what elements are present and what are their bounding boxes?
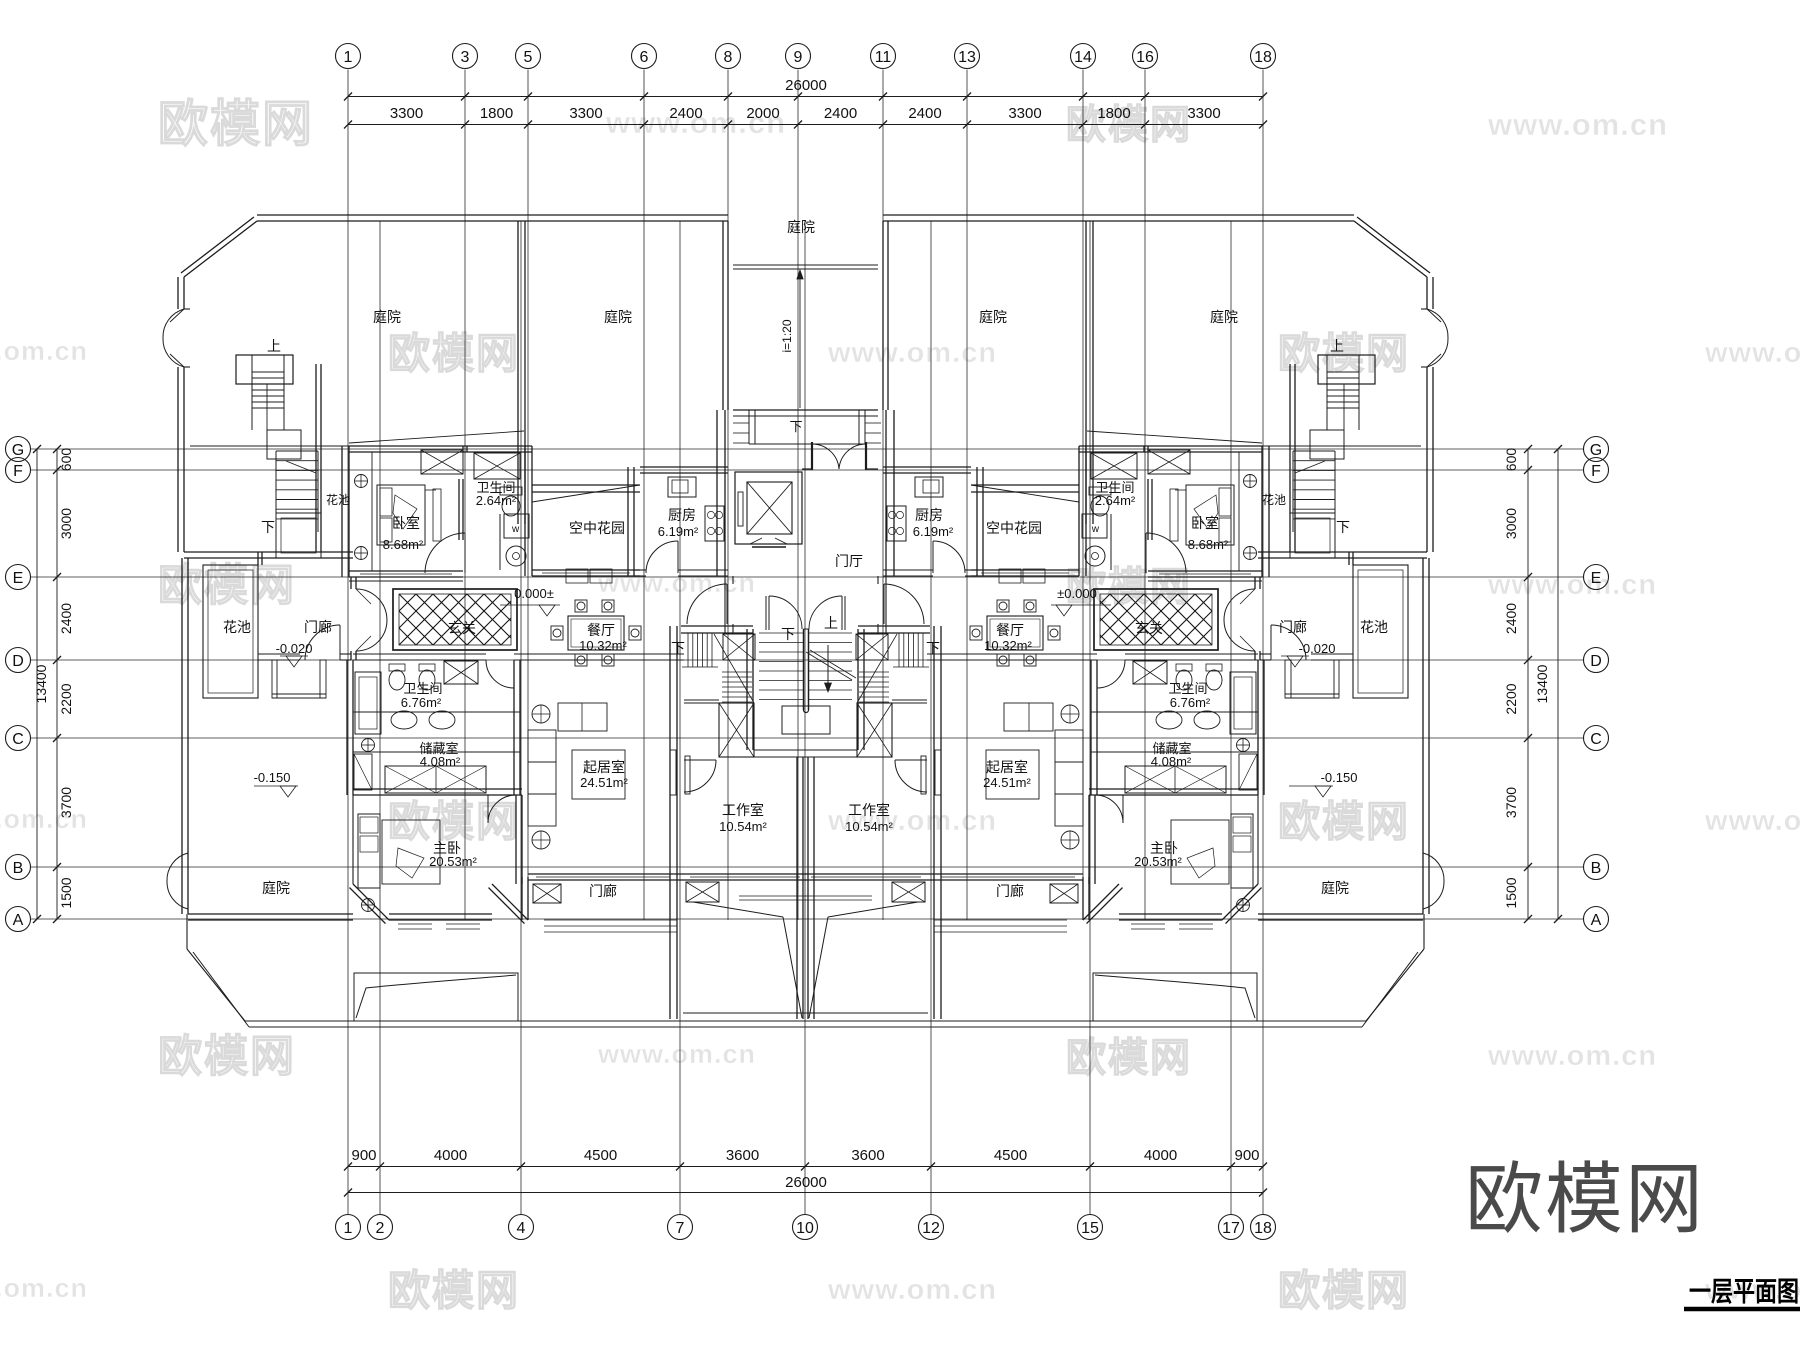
master bedroom 主卧 20.53 bbox=[353, 788, 522, 790]
svg-text:下: 下 bbox=[789, 419, 802, 434]
svg-text:8: 8 bbox=[724, 49, 733, 66]
bathroom 卫生间 6.76 bbox=[352, 660, 354, 795]
svg-text:庭院: 庭院 bbox=[787, 219, 815, 235]
svg-text:www.om.cn: www.om.cn bbox=[1487, 1040, 1657, 1072]
porch 门廊 and planter 花池 bbox=[203, 565, 258, 698]
svg-text:F: F bbox=[1591, 463, 1601, 480]
svg-text:2.64m²: 2.64m² bbox=[1095, 493, 1136, 508]
porch 门廊 and planter 花池 bbox=[1353, 565, 1408, 698]
svg-text:15: 15 bbox=[1081, 1220, 1099, 1237]
svg-text:±0.000: ±0.000 bbox=[1057, 586, 1097, 601]
svg-text:www.om.cn: www.om.cn bbox=[1704, 337, 1800, 369]
basement stair bbox=[858, 625, 930, 627]
central stair flight bbox=[857, 629, 859, 750]
svg-text:10.32m²: 10.32m² bbox=[984, 638, 1032, 653]
svg-text:起居室: 起居室 bbox=[583, 759, 625, 775]
grid lines bbox=[31, 70, 1584, 1215]
storage 储藏室 4.08 bbox=[353, 751, 520, 753]
svg-text:庭院: 庭院 bbox=[1210, 309, 1238, 325]
svg-text:20.53m²: 20.53m² bbox=[429, 854, 477, 869]
svg-text:13: 13 bbox=[958, 49, 976, 66]
svg-text:4500: 4500 bbox=[994, 1147, 1027, 1164]
svg-text:上: 上 bbox=[1330, 338, 1344, 354]
svg-text:欧模网: 欧模网 bbox=[1278, 798, 1410, 845]
outer wall top bbox=[883, 220, 1354, 222]
svg-text:13400: 13400 bbox=[33, 664, 49, 703]
svg-text:26000: 26000 bbox=[785, 77, 827, 94]
svg-text:欧模网: 欧模网 bbox=[1278, 330, 1410, 377]
sky garden 空中花园 bbox=[532, 484, 640, 486]
svg-text:www.om.cn: www.om.cn bbox=[1487, 569, 1657, 601]
sky garden 空中花园 bbox=[971, 484, 1079, 486]
svg-text:庭院: 庭院 bbox=[604, 309, 632, 325]
svg-text:门廊: 门廊 bbox=[589, 883, 617, 899]
svg-text:3000: 3000 bbox=[58, 508, 74, 539]
elevator bbox=[735, 472, 802, 544]
svg-text:花池: 花池 bbox=[326, 492, 350, 507]
svg-text:2400: 2400 bbox=[824, 105, 857, 122]
svg-text:D: D bbox=[12, 653, 24, 670]
planting bed bbox=[354, 973, 518, 1021]
svg-text:F: F bbox=[13, 463, 23, 480]
svg-text:1800: 1800 bbox=[480, 105, 513, 122]
svg-text:2000: 2000 bbox=[746, 105, 779, 122]
svg-text:2: 2 bbox=[376, 1220, 385, 1237]
svg-text:欧模网: 欧模网 bbox=[1066, 1036, 1192, 1080]
svg-text:下: 下 bbox=[1336, 519, 1350, 535]
svg-text:900: 900 bbox=[351, 1147, 376, 1164]
outer wall top bbox=[257, 220, 728, 222]
svg-text:www.om.cn: www.om.cn bbox=[597, 1039, 756, 1069]
kitchen 厨房 6.19 bbox=[883, 466, 971, 468]
svg-text:24.51m²: 24.51m² bbox=[983, 775, 1031, 790]
svg-text:1500: 1500 bbox=[1503, 877, 1519, 908]
svg-text:17: 17 bbox=[1222, 1220, 1240, 1237]
svg-text:玄关: 玄关 bbox=[448, 620, 476, 636]
bathroom 卫生间 2.64 bbox=[474, 453, 520, 479]
basement stair bbox=[681, 625, 753, 627]
svg-text:工作室: 工作室 bbox=[722, 802, 764, 818]
dimension system bbox=[6, 44, 1609, 1240]
site boundary bbox=[186, 914, 188, 949]
svg-text:5: 5 bbox=[524, 49, 533, 66]
svg-text:欧模网: 欧模网 bbox=[1465, 1155, 1705, 1243]
svg-text:庭院: 庭院 bbox=[373, 309, 401, 325]
entry mat 玄关 bbox=[1094, 589, 1218, 650]
washer closet bbox=[1082, 514, 1107, 538]
living room 起居室 24.51 bbox=[1004, 703, 1053, 731]
svg-text:庭院: 庭院 bbox=[979, 309, 1007, 325]
svg-text:上: 上 bbox=[824, 615, 838, 631]
svg-text:庭院: 庭院 bbox=[262, 880, 290, 896]
svg-text:3300: 3300 bbox=[569, 105, 602, 122]
svg-text:1: 1 bbox=[344, 1220, 353, 1237]
dining 餐厅 10.32 bbox=[987, 616, 1043, 650]
svg-text:E: E bbox=[13, 570, 24, 587]
svg-text:餐厅: 餐厅 bbox=[996, 622, 1024, 638]
svg-text:12: 12 bbox=[922, 1220, 940, 1237]
svg-text:13400: 13400 bbox=[1534, 664, 1550, 703]
svg-text:-0.150: -0.150 bbox=[254, 770, 291, 785]
right unit (mirror) bbox=[805, 215, 1448, 1027]
svg-text:厨房: 厨房 bbox=[915, 507, 943, 523]
svg-text:4.08m²: 4.08m² bbox=[420, 754, 461, 769]
svg-text:庭院: 庭院 bbox=[1321, 880, 1349, 896]
svg-text:6.76m²: 6.76m² bbox=[401, 695, 442, 710]
svg-text:C: C bbox=[12, 731, 24, 748]
svg-text:14: 14 bbox=[1074, 49, 1092, 66]
svg-text:下: 下 bbox=[671, 640, 685, 656]
svg-text:6.19m²: 6.19m² bbox=[658, 524, 699, 539]
courtyard recess bbox=[733, 264, 878, 266]
svg-text:玄关: 玄关 bbox=[1135, 620, 1163, 636]
svg-text:6: 6 bbox=[640, 49, 649, 66]
svg-text:4: 4 bbox=[517, 1220, 526, 1237]
svg-text:D: D bbox=[1590, 653, 1602, 670]
svg-text:4000: 4000 bbox=[434, 1147, 467, 1164]
svg-text:3700: 3700 bbox=[1503, 787, 1519, 818]
svg-text:4.08m²: 4.08m² bbox=[1151, 754, 1192, 769]
planting bed bbox=[1093, 973, 1257, 1021]
svg-text:起居室: 起居室 bbox=[986, 759, 1028, 775]
bed bbox=[1186, 485, 1234, 545]
svg-text:3300: 3300 bbox=[390, 105, 423, 122]
svg-text:空中花园: 空中花园 bbox=[986, 520, 1042, 536]
ramp i=1:20 bbox=[799, 272, 801, 408]
svg-text:3300: 3300 bbox=[1008, 105, 1041, 122]
svg-text:10.54m²: 10.54m² bbox=[719, 819, 767, 834]
svg-text:一层平面图: 一层平面图 bbox=[1689, 1277, 1799, 1307]
svg-text:G: G bbox=[12, 442, 24, 459]
svg-text:www.om.cn: www.om.cn bbox=[597, 568, 756, 598]
master bedroom 主卧 20.53 bbox=[1089, 788, 1258, 790]
workroom 工作室 10.54 bbox=[676, 626, 678, 874]
svg-text:1500: 1500 bbox=[58, 877, 74, 908]
svg-text:3700: 3700 bbox=[58, 787, 74, 818]
svg-text:3: 3 bbox=[461, 49, 470, 66]
svg-text:10: 10 bbox=[796, 1220, 814, 1237]
svg-text:卫生间: 卫生间 bbox=[1168, 681, 1207, 696]
svg-text:4500: 4500 bbox=[584, 1147, 617, 1164]
svg-text:18: 18 bbox=[1254, 49, 1272, 66]
svg-text:www.om.cn: www.om.cn bbox=[827, 337, 997, 369]
svg-text:4000: 4000 bbox=[1144, 1147, 1177, 1164]
left unit bbox=[163, 215, 806, 1027]
svg-text:欧模网: 欧模网 bbox=[158, 561, 296, 610]
svg-text:3600: 3600 bbox=[726, 1147, 759, 1164]
svg-text:-0.020: -0.020 bbox=[276, 641, 313, 656]
entry mat 玄关 bbox=[393, 589, 517, 650]
svg-text:A: A bbox=[13, 912, 24, 929]
svg-text:2.64m²: 2.64m² bbox=[476, 493, 517, 508]
svg-text:门廊: 门廊 bbox=[1279, 619, 1307, 635]
svg-text:8.68m²: 8.68m² bbox=[383, 537, 424, 552]
svg-text:门廊: 门廊 bbox=[304, 619, 332, 635]
svg-text:2400: 2400 bbox=[669, 105, 702, 122]
svg-text:-0.020: -0.020 bbox=[1299, 641, 1336, 656]
storage 储藏室 4.08 bbox=[1091, 751, 1258, 753]
svg-text:10.32m²: 10.32m² bbox=[579, 638, 627, 653]
svg-text:600: 600 bbox=[58, 448, 74, 472]
svg-text:7: 7 bbox=[676, 1220, 685, 1237]
flue shaft bbox=[421, 450, 463, 474]
svg-text:花池: 花池 bbox=[1262, 492, 1286, 507]
svg-text:卫生间: 卫生间 bbox=[403, 681, 442, 696]
svg-text:卧室: 卧室 bbox=[392, 515, 420, 531]
bathroom 卫生间 2.64 bbox=[1091, 453, 1137, 479]
svg-text:A: A bbox=[1591, 912, 1602, 929]
svg-text:www.om.cn: www.om.cn bbox=[827, 1274, 997, 1306]
exterior stair bbox=[1318, 355, 1375, 384]
svg-text:3000: 3000 bbox=[1503, 508, 1519, 539]
svg-text:8.68m²: 8.68m² bbox=[1188, 537, 1229, 552]
svg-text:B: B bbox=[13, 860, 24, 877]
svg-text:9: 9 bbox=[794, 49, 803, 66]
center core: ramp, entry, elevator, stair bbox=[733, 265, 881, 734]
svg-text:11: 11 bbox=[875, 49, 892, 66]
room labels bbox=[223, 219, 1388, 899]
svg-text:欧模网: 欧模网 bbox=[388, 1267, 520, 1314]
svg-text:下: 下 bbox=[926, 640, 940, 656]
svg-text:www.om.cn: www.om.cn bbox=[0, 1273, 88, 1303]
svg-text:www.om.cn: www.om.cn bbox=[1704, 805, 1800, 837]
svg-text:C: C bbox=[1590, 731, 1602, 748]
central stair flight bbox=[752, 629, 754, 750]
svg-text:上: 上 bbox=[267, 338, 281, 354]
entry landing steps bbox=[733, 409, 878, 411]
svg-text:2200: 2200 bbox=[58, 683, 74, 714]
stair newel and arrow bbox=[803, 629, 805, 710]
svg-text:-0.150: -0.150 bbox=[1321, 770, 1358, 785]
svg-text:花池: 花池 bbox=[223, 619, 251, 635]
svg-text:厨房: 厨房 bbox=[668, 507, 696, 523]
svg-text:1800: 1800 bbox=[1097, 105, 1130, 122]
double swing door, left wall bbox=[1427, 309, 1448, 338]
svg-text:花池: 花池 bbox=[1360, 619, 1388, 635]
svg-text:欧模网: 欧模网 bbox=[158, 96, 314, 152]
svg-text:www.om.cn: www.om.cn bbox=[1487, 107, 1668, 142]
svg-text:E: E bbox=[1591, 570, 1602, 587]
svg-text:欧模网: 欧模网 bbox=[1278, 1267, 1410, 1314]
svg-text:900: 900 bbox=[1234, 1147, 1259, 1164]
site boundary bbox=[1423, 914, 1425, 949]
svg-text:门廊: 门廊 bbox=[996, 883, 1024, 899]
svg-text:G: G bbox=[1590, 442, 1602, 459]
bedroom 卧室 8.68 bbox=[349, 445, 532, 447]
svg-text:600: 600 bbox=[1503, 448, 1519, 472]
svg-text:20.53m²: 20.53m² bbox=[1134, 854, 1182, 869]
svg-text:空中花园: 空中花园 bbox=[569, 520, 625, 536]
svg-text:B: B bbox=[1591, 860, 1602, 877]
bed bbox=[377, 485, 425, 545]
bathroom 卫生间 6.76 bbox=[1257, 660, 1259, 795]
dining 餐厅 10.32 bbox=[568, 616, 624, 650]
svg-text:门厅: 门厅 bbox=[835, 553, 863, 569]
svg-text:0.000±: 0.000± bbox=[514, 586, 554, 601]
svg-text:2400: 2400 bbox=[908, 105, 941, 122]
svg-text:24.51m²: 24.51m² bbox=[580, 775, 628, 790]
svg-text:工作室: 工作室 bbox=[848, 802, 890, 818]
workroom 工作室 10.54 bbox=[933, 626, 935, 874]
svg-text:16: 16 bbox=[1136, 49, 1154, 66]
exterior stair bbox=[236, 355, 293, 384]
svg-text:欧模网: 欧模网 bbox=[388, 798, 520, 845]
kitchen 厨房 6.19 bbox=[640, 466, 728, 468]
svg-text:3300: 3300 bbox=[1187, 105, 1220, 122]
washer closet bbox=[504, 514, 529, 538]
svg-text:下: 下 bbox=[261, 519, 275, 535]
svg-text:2400: 2400 bbox=[1503, 603, 1519, 634]
watermark logo and title 一层平面图 bbox=[1465, 1155, 1800, 1309]
svg-text:i=1:20: i=1:20 bbox=[780, 319, 794, 352]
flue shaft bbox=[1148, 450, 1190, 474]
svg-text:欧模网: 欧模网 bbox=[388, 330, 520, 377]
svg-text:下: 下 bbox=[781, 626, 795, 642]
svg-text:1: 1 bbox=[344, 49, 353, 66]
svg-text:18: 18 bbox=[1254, 1220, 1272, 1237]
svg-text:餐厅: 餐厅 bbox=[587, 622, 615, 638]
svg-text:w: w bbox=[1091, 524, 1100, 535]
svg-text:2400: 2400 bbox=[58, 603, 74, 634]
svg-text:w: w bbox=[511, 524, 520, 535]
entrance double door bbox=[811, 442, 813, 470]
svg-text:6.19m²: 6.19m² bbox=[913, 524, 954, 539]
living room 起居室 24.51 bbox=[558, 703, 607, 731]
svg-text:欧模网: 欧模网 bbox=[158, 1032, 296, 1081]
svg-text:2200: 2200 bbox=[1503, 683, 1519, 714]
svg-text:www.om.cn: www.om.cn bbox=[0, 336, 88, 366]
double swing door, left wall bbox=[163, 309, 184, 338]
bedroom 卧室 8.68 bbox=[1079, 445, 1262, 447]
svg-text:10.54m²: 10.54m² bbox=[845, 819, 893, 834]
svg-text:3600: 3600 bbox=[851, 1147, 884, 1164]
svg-text:6.76m²: 6.76m² bbox=[1170, 695, 1211, 710]
svg-text:26000: 26000 bbox=[785, 1174, 827, 1191]
svg-text:www.om.cn: www.om.cn bbox=[0, 804, 88, 834]
svg-text:卧室: 卧室 bbox=[1191, 515, 1219, 531]
